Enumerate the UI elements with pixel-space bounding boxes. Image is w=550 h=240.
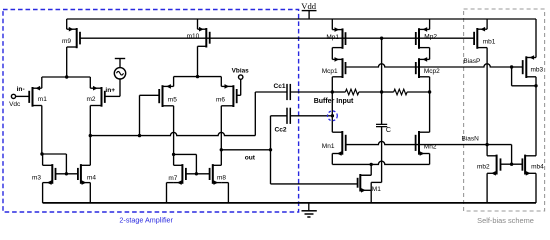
svg-text:m10: m10	[187, 33, 200, 40]
svg-text:m1: m1	[38, 96, 47, 103]
svg-text:m2: m2	[87, 96, 96, 103]
svg-text:m9: m9	[62, 38, 71, 45]
svg-text:Vdd: Vdd	[301, 1, 317, 11]
svg-text:2-stage Amplifier: 2-stage Amplifier	[119, 215, 173, 224]
svg-text:Mp2: Mp2	[424, 34, 437, 41]
svg-text:in-: in-	[17, 86, 25, 93]
svg-text:Buffer Input: Buffer Input	[314, 98, 354, 105]
svg-text:Cc1: Cc1	[274, 83, 286, 90]
svg-text:m3: m3	[32, 174, 41, 181]
svg-text:m6: m6	[216, 97, 225, 104]
svg-text:Mn1: Mn1	[322, 143, 335, 150]
svg-text:Vbias: Vbias	[232, 67, 249, 74]
svg-text:BiasP: BiasP	[463, 58, 480, 65]
svg-text:in+: in+	[105, 87, 115, 94]
svg-text:Mcp1: Mcp1	[322, 68, 338, 75]
svg-text:mb3: mb3	[531, 67, 544, 74]
svg-text:BiasN: BiasN	[462, 136, 480, 143]
svg-text:Self-bias scheme: Self-bias scheme	[477, 216, 534, 225]
svg-text:mb1: mb1	[483, 39, 496, 46]
svg-text:out: out	[245, 154, 256, 161]
svg-text:Vdc: Vdc	[9, 101, 21, 108]
svg-text:Cc2: Cc2	[275, 126, 287, 133]
svg-text:M1: M1	[372, 186, 381, 193]
svg-text:m8: m8	[217, 174, 226, 181]
svg-text:Mp1: Mp1	[326, 34, 339, 41]
svg-text:m5: m5	[168, 97, 177, 104]
svg-text:C: C	[386, 127, 391, 134]
svg-text:mb2: mb2	[477, 163, 490, 170]
svg-text:mb4: mb4	[531, 164, 544, 171]
svg-text:Mcp2: Mcp2	[424, 68, 440, 75]
svg-text:m7: m7	[168, 175, 177, 182]
svg-text:m4: m4	[87, 174, 96, 181]
